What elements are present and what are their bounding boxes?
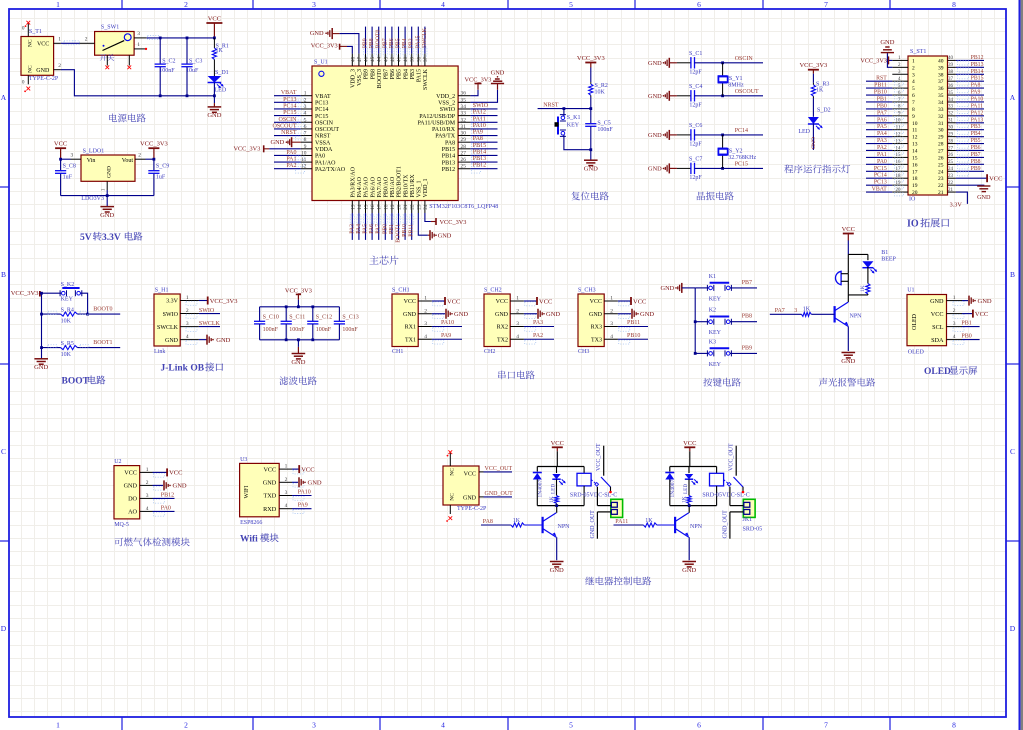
svg-text:VCC: VCC <box>931 311 944 318</box>
svg-text:PA4: PA4 <box>877 131 887 137</box>
svg-text:10K: 10K <box>61 352 72 358</box>
svg-text:BOOT1: BOOT1 <box>93 340 112 346</box>
svg-text:OSCOUT: OSCOUT <box>272 123 296 129</box>
svg-text:1: 1 <box>137 42 140 48</box>
svg-text:PC15: PC15 <box>315 114 328 120</box>
svg-text:PB0: PB0 <box>382 224 388 234</box>
svg-text:28: 28 <box>938 142 944 148</box>
svg-text:VBAT: VBAT <box>281 90 297 96</box>
svg-text:RX2: RX2 <box>497 325 508 331</box>
svg-text:PB13: PB13 <box>971 62 984 68</box>
svg-text:K3: K3 <box>709 339 716 345</box>
svg-text:1K: 1K <box>216 48 224 54</box>
svg-text:14: 14 <box>896 146 902 151</box>
svg-text:VCC: VCC <box>404 299 416 305</box>
svg-text:40: 40 <box>948 56 954 61</box>
svg-text:S_T1: S_T1 <box>29 29 42 35</box>
svg-text:PB8: PB8 <box>971 159 981 165</box>
svg-text:6: 6 <box>912 93 915 99</box>
svg-text:KEY: KEY <box>61 297 74 303</box>
svg-text:10: 10 <box>912 121 918 127</box>
svg-text:17: 17 <box>912 169 918 175</box>
svg-text:VCC: VCC <box>683 440 696 447</box>
svg-text:U2: U2 <box>114 459 121 465</box>
svg-text:1K: 1K <box>513 518 521 524</box>
svg-text:LED: LED <box>215 88 227 94</box>
svg-text:GND: GND <box>107 166 113 178</box>
svg-text:VCC: VCC <box>37 41 49 47</box>
svg-text:20: 20 <box>912 190 918 196</box>
svg-text:45: 45 <box>370 56 376 62</box>
svg-text:GND: GND <box>584 166 598 173</box>
svg-text:100nF: 100nF <box>342 327 358 333</box>
svg-text:11: 11 <box>896 126 901 131</box>
svg-text:KEY: KEY <box>567 123 580 129</box>
svg-text:19: 19 <box>390 204 396 210</box>
svg-text:VCC: VCC <box>989 176 1002 183</box>
svg-text:S_ST1: S_ST1 <box>910 49 926 55</box>
svg-text:SWIO: SWIO <box>440 107 456 113</box>
svg-text:GND: GND <box>308 480 322 487</box>
svg-text:BOOT0: BOOT0 <box>93 307 112 313</box>
svg-text:S_C7: S_C7 <box>689 156 702 162</box>
svg-text:PB12: PB12 <box>473 163 486 169</box>
svg-text:100nF: 100nF <box>159 68 175 74</box>
svg-text:1: 1 <box>304 91 307 97</box>
svg-text:KEY: KEY <box>709 296 722 302</box>
svg-text:5V: 5V <box>80 233 92 243</box>
svg-text:PB3: PB3 <box>409 38 415 48</box>
svg-text:S_CH1: S_CH1 <box>392 288 410 294</box>
svg-text:PA6: PA6 <box>877 117 887 123</box>
svg-text:SWIO: SWIO <box>163 312 179 318</box>
svg-text:16: 16 <box>896 160 902 165</box>
svg-text:BOOT0: BOOT0 <box>377 69 383 88</box>
svg-text:TYPE-C-2P: TYPE-C-2P <box>29 76 59 82</box>
svg-text:3: 3 <box>794 308 797 314</box>
svg-text:GND: GND <box>463 496 477 502</box>
svg-text:2: 2 <box>424 308 427 314</box>
svg-text:S_R4: S_R4 <box>61 307 74 313</box>
svg-text:GND: GND <box>216 337 230 344</box>
svg-text:12pF: 12pF <box>689 103 702 109</box>
svg-text:TXD: TXD <box>263 493 276 500</box>
svg-text:11: 11 <box>301 157 306 163</box>
svg-text:31: 31 <box>938 121 944 127</box>
svg-text:3: 3 <box>312 721 316 730</box>
svg-text:40: 40 <box>403 56 409 62</box>
svg-text:B: B <box>1 270 6 279</box>
svg-text:GND: GND <box>124 483 138 490</box>
svg-text:GND_OUT: GND_OUT <box>485 491 514 497</box>
svg-text:7: 7 <box>304 131 307 137</box>
svg-text:7: 7 <box>824 721 828 730</box>
svg-text:PB1: PB1 <box>877 96 887 102</box>
svg-text:18: 18 <box>912 176 918 182</box>
svg-text:PB12: PB12 <box>161 492 174 498</box>
svg-text:2: 2 <box>58 63 61 69</box>
svg-text:LED: LED <box>551 484 557 494</box>
svg-text:PB7: PB7 <box>384 69 390 79</box>
svg-text:10K: 10K <box>61 318 72 324</box>
svg-text:PA10: PA10 <box>298 490 311 496</box>
svg-text:U1: U1 <box>907 288 914 294</box>
svg-text:24: 24 <box>938 169 944 175</box>
svg-text:S_C2: S_C2 <box>162 59 175 65</box>
svg-text:100nF: 100nF <box>263 327 279 333</box>
svg-text:PB7: PB7 <box>382 38 388 48</box>
svg-text:48: 48 <box>350 56 356 62</box>
svg-text:SRD-05VDC-SL-C: SRD-05VDC-SL-C <box>570 493 617 499</box>
svg-text:GND: GND <box>263 480 277 487</box>
svg-text:D: D <box>1 624 7 633</box>
svg-text:20: 20 <box>896 188 902 193</box>
svg-text:WIFI: WIFI <box>244 486 250 499</box>
svg-text:3: 3 <box>146 493 149 499</box>
svg-text:PB14: PB14 <box>473 149 486 155</box>
svg-text:S_H1: S_H1 <box>155 288 169 294</box>
svg-text:23: 23 <box>948 174 954 179</box>
svg-text:4: 4 <box>610 334 613 340</box>
svg-text:PB7: PB7 <box>971 152 981 158</box>
svg-text:VDD_2: VDD_2 <box>436 94 455 100</box>
svg-text:NRST: NRST <box>543 103 559 109</box>
svg-text:B: B <box>1010 270 1015 279</box>
svg-text:GND: GND <box>291 359 305 366</box>
svg-text:VCC_3V3: VCC_3V3 <box>860 58 886 65</box>
svg-text:Vout: Vout <box>122 158 134 164</box>
svg-text:11: 11 <box>912 128 918 134</box>
svg-text:PB9: PB9 <box>363 38 369 48</box>
svg-text:S_C10: S_C10 <box>263 314 279 320</box>
svg-text:VCC_OUT: VCC_OUT <box>728 443 734 471</box>
svg-text:PA4/AO: PA4/AO <box>357 176 363 197</box>
svg-text:3: 3 <box>70 153 73 159</box>
svg-text:PB10/TX: PB10/TX <box>403 174 409 198</box>
svg-text:SWCLK: SWCLK <box>199 321 221 327</box>
svg-text:23: 23 <box>416 204 422 210</box>
svg-text:PB4: PB4 <box>403 69 409 79</box>
svg-text:12pF: 12pF <box>689 175 702 181</box>
svg-text:29: 29 <box>948 132 954 137</box>
svg-text:VCC: VCC <box>842 226 855 233</box>
svg-text:PA2: PA2 <box>877 145 887 151</box>
svg-text:3: 3 <box>610 321 613 327</box>
svg-text:Vin: Vin <box>87 158 96 164</box>
svg-text:PB10: PB10 <box>402 224 408 237</box>
svg-text:VCC_OUT: VCC_OUT <box>596 443 602 471</box>
svg-text:1K: 1K <box>803 307 811 313</box>
svg-text:GND: GND <box>810 137 816 149</box>
svg-text:PA12/USB/DP: PA12/USB/DP <box>419 114 455 120</box>
svg-text:RX3: RX3 <box>591 325 602 331</box>
svg-text:GND: GND <box>648 166 662 173</box>
svg-text:VCC_3V3: VCC_3V3 <box>210 298 238 305</box>
svg-text:RXD: RXD <box>263 506 277 513</box>
svg-text:15: 15 <box>364 204 370 210</box>
svg-text:0: 0 <box>22 26 25 32</box>
svg-text:Wifi: Wifi <box>240 534 258 544</box>
svg-text:SWCLK: SWCLK <box>422 27 428 48</box>
svg-text:VCC: VCC <box>54 141 67 148</box>
svg-text:1: 1 <box>516 296 519 302</box>
svg-text:1: 1 <box>610 296 613 302</box>
svg-text:1: 1 <box>285 464 288 470</box>
svg-text:A: A <box>1010 93 1016 102</box>
svg-text:J-Link OB: J-Link OB <box>161 364 205 374</box>
svg-text:LED: LED <box>683 484 689 494</box>
svg-text:GND: GND <box>36 68 50 74</box>
svg-text:3: 3 <box>186 321 189 327</box>
svg-text:4: 4 <box>304 111 307 117</box>
svg-text:27: 27 <box>461 150 467 156</box>
svg-text:1K: 1K <box>816 88 824 94</box>
svg-text:S_C13: S_C13 <box>342 314 358 320</box>
svg-text:SRD-05VDC-SL-C: SRD-05VDC-SL-C <box>702 493 749 499</box>
svg-text:PB2/BOOT1: PB2/BOOT1 <box>397 166 403 197</box>
svg-text:PA9/TX: PA9/TX <box>435 134 455 140</box>
svg-text:IO: IO <box>907 219 919 230</box>
svg-text:5: 5 <box>569 0 573 9</box>
svg-text:PA7: PA7 <box>775 308 785 314</box>
svg-text:32.768KHz: 32.768KHz <box>728 155 756 161</box>
svg-text:37: 37 <box>948 77 954 82</box>
svg-text:26: 26 <box>461 157 467 163</box>
svg-text:33: 33 <box>938 107 944 113</box>
svg-text:23: 23 <box>938 176 944 182</box>
svg-text:14: 14 <box>357 204 363 210</box>
svg-text:VCC: VCC <box>169 470 182 477</box>
svg-text:PB1: PB1 <box>961 321 971 327</box>
svg-text:31: 31 <box>461 124 467 130</box>
svg-text:GND: GND <box>978 298 992 305</box>
svg-text:SCL: SCL <box>932 324 944 331</box>
svg-text:S_Y1: S_Y1 <box>729 76 743 82</box>
svg-text:PB9: PB9 <box>364 69 370 79</box>
svg-text:PB14: PB14 <box>442 154 455 160</box>
svg-text:VCC: VCC <box>590 299 602 305</box>
svg-text:3.3V: 3.3V <box>166 299 179 305</box>
svg-text:GND_OUT: GND_OUT <box>590 510 596 539</box>
svg-text:GND: GND <box>546 311 560 318</box>
svg-text:PA5: PA5 <box>877 124 887 130</box>
svg-text:VCC: VCC <box>208 16 221 23</box>
svg-text:PB5: PB5 <box>971 138 981 144</box>
svg-text:PC13: PC13 <box>315 101 328 107</box>
svg-text:GND: GND <box>977 194 991 201</box>
svg-text:3.3V: 3.3V <box>950 202 963 209</box>
svg-text:PC15: PC15 <box>283 110 296 116</box>
svg-text:PB5: PB5 <box>396 38 402 48</box>
svg-text:S_C1: S_C1 <box>689 51 702 57</box>
svg-text:PA10: PA10 <box>441 320 454 326</box>
svg-text:30: 30 <box>461 131 467 137</box>
svg-text:VCC: VCC <box>551 440 564 447</box>
svg-text:5: 5 <box>304 117 307 123</box>
svg-text:PA11: PA11 <box>971 103 984 109</box>
svg-text:4: 4 <box>441 0 445 9</box>
svg-text:VDD_1: VDD_1 <box>423 179 429 198</box>
svg-text:9: 9 <box>304 144 307 150</box>
svg-text:PA10/RX: PA10/RX <box>432 127 456 133</box>
svg-text:NC: NC <box>450 468 456 476</box>
svg-text:10uF: 10uF <box>186 68 199 74</box>
svg-text:PA12: PA12 <box>971 110 984 116</box>
svg-text:17: 17 <box>377 204 383 210</box>
svg-text:PC15: PC15 <box>735 162 748 168</box>
svg-text:OLED: OLED <box>908 350 925 356</box>
svg-text:1uF: 1uF <box>63 175 73 181</box>
svg-text:GND: GND <box>648 60 662 67</box>
svg-text:GND: GND <box>34 364 48 371</box>
svg-text:GND: GND <box>640 311 654 318</box>
svg-text:PA8: PA8 <box>483 519 493 525</box>
svg-text:PB12: PB12 <box>442 167 455 173</box>
svg-text:S_LDO1: S_LDO1 <box>83 149 105 155</box>
svg-text:NRST: NRST <box>281 130 297 136</box>
svg-text:PC14: PC14 <box>735 128 748 134</box>
svg-text:30: 30 <box>938 128 944 134</box>
svg-text:4: 4 <box>285 503 288 509</box>
svg-text:5: 5 <box>569 721 573 730</box>
svg-text:PA7: PA7 <box>376 224 382 234</box>
svg-text:A: A <box>1 93 7 102</box>
svg-text:13: 13 <box>350 204 356 210</box>
svg-text:VCC: VCC <box>301 466 314 473</box>
svg-text:10: 10 <box>301 150 307 156</box>
svg-text:OLED: OLED <box>912 313 918 330</box>
svg-text:PA0: PA0 <box>877 159 887 165</box>
svg-text:BOOT1: BOOT1 <box>396 224 402 243</box>
svg-text:S_C5: S_C5 <box>597 121 610 127</box>
svg-text:8MHz: 8MHz <box>728 83 744 89</box>
svg-text:PA11: PA11 <box>473 116 486 122</box>
svg-text:PA15: PA15 <box>417 69 423 82</box>
svg-text:PB12: PB12 <box>971 55 984 61</box>
svg-text:NC: NC <box>28 65 34 73</box>
svg-text:C: C <box>1 447 6 456</box>
svg-text:PB8: PB8 <box>742 314 752 320</box>
svg-text:PB3: PB3 <box>971 124 981 130</box>
svg-text:GND: GND <box>648 132 662 139</box>
svg-text:B1: B1 <box>881 250 888 256</box>
svg-text:VSS_3: VSS_3 <box>357 69 363 86</box>
svg-text:3: 3 <box>312 0 316 9</box>
svg-text:32: 32 <box>948 112 954 117</box>
svg-text:GND: GND <box>454 311 468 318</box>
svg-text:VCC_3V3: VCC_3V3 <box>11 290 39 297</box>
svg-text:S_C11: S_C11 <box>289 314 305 320</box>
svg-text:S_CH3: S_CH3 <box>578 288 596 294</box>
svg-text:SDA: SDA <box>931 337 944 344</box>
svg-text:2: 2 <box>184 0 188 9</box>
svg-text:S_SW1: S_SW1 <box>101 25 119 31</box>
svg-text:18: 18 <box>383 204 389 210</box>
svg-text:PB5: PB5 <box>397 69 403 79</box>
svg-text:24: 24 <box>948 167 954 172</box>
svg-text:PA3/RX/AO: PA3/RX/AO <box>351 166 357 197</box>
svg-text:1: 1 <box>186 295 189 301</box>
svg-text:38: 38 <box>416 56 422 62</box>
svg-text:VCC: VCC <box>633 298 646 305</box>
svg-text:PB6: PB6 <box>971 145 981 151</box>
svg-text:10K: 10K <box>595 90 606 96</box>
svg-text:PB10: PB10 <box>627 333 640 339</box>
svg-text:PB11: PB11 <box>627 320 640 326</box>
svg-text:PB14: PB14 <box>971 69 984 75</box>
svg-text:12: 12 <box>912 135 918 141</box>
svg-text:GND: GND <box>682 567 696 574</box>
svg-text:2: 2 <box>138 153 141 159</box>
svg-text:PA8: PA8 <box>971 83 981 89</box>
svg-text:D: D <box>1010 624 1016 633</box>
svg-text:PA12: PA12 <box>473 110 486 116</box>
svg-text:S_D2: S_D2 <box>817 108 831 114</box>
svg-text:GND_OUT: GND_OUT <box>722 510 728 539</box>
svg-text:2: 2 <box>184 721 188 730</box>
svg-text:OSCIN: OSCIN <box>278 117 297 123</box>
svg-text:5: 5 <box>912 86 915 92</box>
svg-text:VSSA: VSSA <box>315 140 331 146</box>
svg-text:6: 6 <box>697 0 701 9</box>
svg-text:25: 25 <box>948 160 954 165</box>
svg-text:PA2: PA2 <box>286 163 296 169</box>
svg-text:22: 22 <box>410 204 416 210</box>
svg-text:PB13: PB13 <box>473 156 486 162</box>
svg-text:VCC: VCC <box>539 298 552 305</box>
svg-text:25: 25 <box>938 162 944 168</box>
svg-text:3: 3 <box>516 321 519 327</box>
svg-text:1: 1 <box>912 58 915 64</box>
svg-text:PA10: PA10 <box>971 96 984 102</box>
svg-text:6: 6 <box>304 124 307 130</box>
svg-text:2: 2 <box>85 37 88 43</box>
svg-text:PA5/AO: PA5/AO <box>364 176 370 197</box>
svg-text:41: 41 <box>397 56 403 62</box>
svg-text:1: 1 <box>56 0 60 9</box>
svg-text:S_U1: S_U1 <box>314 60 328 66</box>
svg-text:32: 32 <box>938 114 944 120</box>
svg-text:PA0: PA0 <box>315 154 325 160</box>
svg-text:S_K2: S_K2 <box>61 282 75 288</box>
svg-text:PA9: PA9 <box>298 503 308 509</box>
svg-text:26: 26 <box>938 155 944 161</box>
svg-text:PB4: PB4 <box>402 38 408 48</box>
svg-text:2: 2 <box>516 308 519 314</box>
svg-text:3: 3 <box>912 72 915 78</box>
svg-text:SWIO: SWIO <box>199 308 215 314</box>
svg-text:4: 4 <box>516 334 519 340</box>
svg-text:3: 3 <box>953 321 956 327</box>
svg-text:GND: GND <box>648 93 662 100</box>
svg-text:PA1/AO: PA1/AO <box>315 160 336 166</box>
svg-text:38: 38 <box>938 72 944 78</box>
svg-text:2: 2 <box>186 308 189 314</box>
svg-text:PA15: PA15 <box>415 36 421 49</box>
svg-text:40: 40 <box>938 58 944 64</box>
svg-text:CH3: CH3 <box>578 349 589 355</box>
svg-text:PA1: PA1 <box>286 157 296 163</box>
svg-text:1: 1 <box>146 467 149 473</box>
svg-text:SWCLK: SWCLK <box>157 325 179 331</box>
svg-text:34: 34 <box>948 98 954 103</box>
svg-text:DO: DO <box>128 496 137 503</box>
svg-text:GND: GND <box>310 30 324 37</box>
svg-text:TYPE-C-2P: TYPE-C-2P <box>457 506 487 512</box>
svg-text:34: 34 <box>461 104 467 110</box>
svg-text:GND: GND <box>550 567 564 574</box>
svg-text:PB0: PB0 <box>877 103 887 109</box>
